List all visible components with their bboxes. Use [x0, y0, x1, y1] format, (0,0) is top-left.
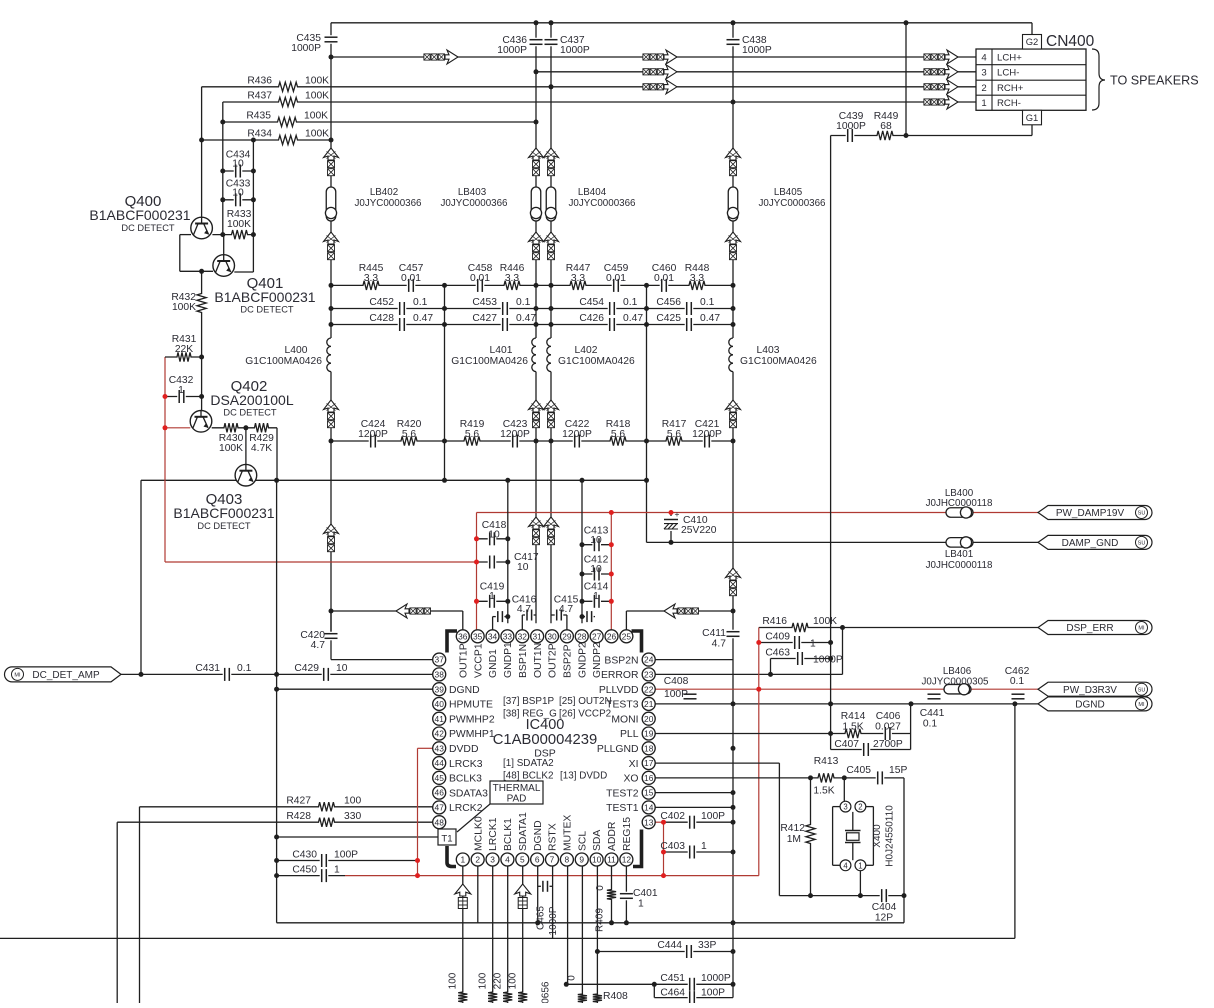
svg-text:SDATA3: SDATA3 — [449, 788, 488, 799]
svg-text:BSP2P: BSP2P — [562, 644, 573, 678]
svg-text:G1C100MA0426: G1C100MA0426 — [451, 356, 528, 367]
svg-text:0.1: 0.1 — [1010, 676, 1025, 687]
wire crystal box left — [832, 807, 834, 866]
capacitor C444 — [685, 945, 694, 958]
wire crystal element stubs — [852, 812, 854, 831]
wire OUT2N row to pin25 — [626, 610, 733, 612]
svg-text:C464: C464 — [660, 988, 685, 999]
wire Q402 junction down to Q403 — [245, 428, 247, 465]
svg-text:4.7K: 4.7K — [251, 443, 272, 454]
svg-text:0.47: 0.47 — [700, 313, 720, 324]
svg-text:C430: C430 — [292, 850, 317, 861]
wire R429 output down — [276, 428, 278, 481]
svg-text:100P: 100P — [664, 689, 688, 700]
svg-text:T1: T1 — [441, 834, 452, 845]
svg-text:L400: L400 — [285, 345, 308, 356]
inductor L401 — [527, 338, 537, 372]
svg-text:1000P: 1000P — [560, 45, 590, 56]
svg-text:36: 36 — [458, 631, 468, 641]
capacitor C409 — [793, 636, 802, 649]
IC400 chip outline corner top-left — [447, 631, 457, 653]
IC400 pin 39 — [433, 683, 446, 696]
wire Q401 to R432 vertical — [201, 271, 203, 410]
ferrite bead LB405 — [728, 187, 738, 221]
IC400 pin 41 — [433, 712, 446, 725]
svg-text:R437: R437 — [247, 91, 272, 102]
svg-text:0.01: 0.01 — [401, 273, 421, 284]
svg-text:1000P: 1000P — [813, 655, 843, 666]
resistor R436 — [275, 81, 302, 93]
svg-text:DSP_ERR: DSP_ERR — [1066, 623, 1113, 634]
capacitor C464 — [688, 991, 697, 1004]
IC400 pin 19 — [642, 727, 655, 740]
resistor pin4 220 — [502, 988, 514, 1006]
svg-text:LRCK2: LRCK2 — [449, 803, 483, 814]
inductor L402 — [542, 338, 552, 372]
shield symbol rail B lower — [529, 517, 544, 529]
IC400 pin 16 — [642, 771, 655, 784]
transistor Q401 — [213, 255, 235, 277]
capacitor C420 — [325, 632, 338, 641]
ferrite bead LB402 — [326, 187, 336, 221]
svg-text:0: 0 — [595, 885, 606, 891]
svg-text:100K: 100K — [305, 91, 329, 102]
IC400 T1 thermal pad pin — [438, 829, 456, 845]
svg-text:10: 10 — [590, 535, 602, 546]
svg-text:39: 39 — [435, 684, 445, 694]
svg-text:1: 1 — [858, 861, 862, 870]
brace TO SPEAKERS — [1092, 49, 1105, 110]
wire RCH- bus row to CN400 pin1 — [223, 101, 976, 103]
svg-text:0.47: 0.47 — [623, 313, 643, 324]
IC400 pin 12 — [620, 853, 633, 866]
capacitor C437 — [545, 38, 558, 47]
wire pin33 GNDP1 vertical — [507, 480, 509, 623]
wire T1 row — [277, 836, 438, 838]
svg-text:C428: C428 — [369, 313, 394, 324]
svg-text:C1AB00004239: C1AB00004239 — [493, 732, 598, 748]
svg-text:30: 30 — [547, 631, 557, 641]
svg-text:100K: 100K — [813, 616, 837, 627]
svg-text:1200P: 1200P — [500, 429, 530, 440]
svg-text:0.1: 0.1 — [923, 719, 938, 730]
crystal X400 pin 3 — [840, 801, 851, 812]
svg-text:0.01: 0.01 — [470, 273, 490, 284]
svg-text:100: 100 — [508, 972, 519, 989]
flag PW_DAMP19V — [1038, 506, 1152, 520]
IC400 pin 30 — [546, 630, 559, 643]
wire pin7 bottom — [552, 866, 554, 939]
bus arrow row4 right — [924, 54, 930, 60]
wire R412 vertical — [810, 778, 812, 896]
svg-text:DC DETECT: DC DETECT — [223, 408, 277, 418]
svg-text:C444: C444 — [657, 940, 682, 951]
svg-text:2700P: 2700P — [873, 739, 903, 750]
svg-text:1: 1 — [981, 98, 986, 109]
wire C464 row — [654, 997, 733, 999]
shield symbol rail B upper — [529, 148, 544, 160]
svg-text:100K: 100K — [227, 219, 251, 230]
wire pin3 bottom — [492, 866, 494, 1003]
capacitor C418 — [488, 532, 497, 545]
IC400 pin 5 — [516, 853, 529, 866]
svg-text:SU: SU — [1138, 511, 1146, 517]
IC400 pin 15 — [642, 786, 655, 799]
svg-text:L402: L402 — [575, 345, 598, 356]
transistor Q403 — [235, 464, 257, 486]
wire red DVDD to pin43 — [418, 747, 433, 749]
svg-text:7: 7 — [550, 855, 555, 865]
IC400 pin 7 — [546, 853, 559, 866]
wire DSP_ERR row — [759, 627, 1038, 629]
svg-text:MI: MI — [1138, 626, 1145, 632]
wire crystal pin1 stub — [859, 871, 861, 896]
bus arrow row1 right — [924, 99, 930, 105]
resistor R416 — [788, 622, 812, 634]
IC400 pin 46 — [433, 786, 446, 799]
svg-text:R409: R409 — [595, 908, 606, 932]
svg-text:OUT1P: OUT1P — [458, 643, 469, 678]
svg-text:35: 35 — [473, 631, 483, 641]
capacitor C453 — [501, 302, 510, 315]
svg-text:100K: 100K — [305, 129, 329, 140]
svg-text:11: 11 — [607, 855, 616, 865]
svg-text:PLL: PLL — [620, 729, 639, 740]
wire vertical at x906 — [905, 23, 907, 136]
resistor R434 — [275, 134, 302, 146]
IC400 pin 29 — [560, 630, 573, 643]
flag DSP_ERR — [1038, 621, 1152, 635]
resistor pin1 100 — [457, 988, 469, 1006]
svg-text:1: 1 — [489, 591, 495, 602]
wire rail A vertical — [330, 23, 332, 640]
capacitor C454 — [608, 302, 617, 315]
wire red VCCP2 vertical to pin26 — [610, 513, 612, 630]
wire TEST1 row pin14 — [655, 806, 733, 808]
svg-text:C425: C425 — [656, 313, 681, 324]
svg-text:3: 3 — [981, 68, 986, 79]
capacitor C402 — [688, 816, 697, 829]
wire DC_DET_AMP row to pin38 — [121, 673, 433, 675]
IC400 pin 11 — [605, 853, 618, 866]
svg-text:G1C100MA0426: G1C100MA0426 — [558, 356, 635, 367]
svg-text:MUTEX: MUTEX — [562, 815, 573, 851]
svg-text:PW_DAMP19V: PW_DAMP19V — [1056, 508, 1125, 519]
capacitor C425 — [685, 318, 694, 331]
wire red DVDD rail from Q402 area — [165, 561, 477, 563]
svg-text:1: 1 — [593, 591, 599, 602]
shield symbol rail D above row4 — [726, 400, 741, 412]
capacitor C431 — [223, 668, 232, 681]
svg-text:3.3: 3.3 — [364, 273, 379, 284]
shield symbol rail D below bead — [726, 232, 741, 244]
svg-text:10: 10 — [336, 663, 348, 674]
capacitor C456 — [685, 302, 694, 315]
IC400 pin 17 — [642, 757, 655, 770]
ferrite bead LB401 — [946, 538, 973, 548]
wire pin9 bottom — [581, 866, 583, 1003]
capacitor C410 electrolytic — [662, 516, 680, 531]
flag DGND — [1038, 697, 1152, 711]
svg-text:3: 3 — [490, 855, 495, 865]
svg-text:5: 5 — [520, 855, 525, 865]
wire x830 long vertical — [830, 136, 832, 734]
ferrite bead LB400 — [946, 508, 973, 518]
resistor R433 — [228, 229, 252, 241]
svg-text:C429: C429 — [294, 663, 319, 674]
wire long bus y922 — [277, 922, 904, 924]
svg-text:1000P: 1000P — [548, 906, 559, 935]
resistor R429 — [251, 422, 273, 434]
wire crystal pin3 stub — [843, 778, 845, 802]
svg-text:LB401: LB401 — [945, 549, 973, 560]
wire red vertical at C402 C403 — [663, 822, 665, 875]
bus arrow row4 mid — [643, 54, 649, 60]
svg-text:R414: R414 — [841, 711, 866, 722]
svg-text:C427: C427 — [472, 313, 497, 324]
capacitor C432 — [177, 390, 186, 403]
IC400 pin 22 — [642, 683, 655, 696]
shield symbol rail D upper — [726, 148, 741, 160]
svg-text:5.6: 5.6 — [465, 429, 480, 440]
resistor R432 — [196, 290, 208, 317]
IC400 pin 24 — [642, 653, 655, 666]
capacitor C419 — [488, 595, 497, 608]
resistor R431 — [173, 351, 195, 363]
IC400 pin 42 — [433, 727, 446, 740]
resistor pin3 100 — [487, 988, 499, 1006]
svg-text:OUT1N: OUT1N — [533, 643, 544, 678]
svg-text:R416: R416 — [762, 616, 787, 627]
capacitor C408 — [684, 692, 697, 701]
wire R431 row — [165, 356, 202, 358]
crystal X400 pin 2 — [855, 801, 866, 812]
connector CN400 G1 terminal — [1023, 110, 1042, 125]
svg-text:43: 43 — [435, 743, 445, 753]
wire C407 bracket — [830, 734, 832, 750]
wire Q402 base red stub — [165, 427, 190, 429]
shield symbol rail B above row4 — [529, 400, 544, 412]
svg-text:10: 10 — [232, 188, 244, 199]
svg-text:TEST3: TEST3 — [606, 700, 639, 711]
capacitor C438 — [727, 38, 740, 47]
capacitor C439 — [846, 129, 855, 142]
svg-text:R427: R427 — [286, 796, 311, 807]
shield symbol rail A lower — [324, 524, 339, 536]
resistor R413 — [814, 772, 838, 784]
svg-text:100K: 100K — [172, 302, 196, 313]
IC400 pin 47 — [433, 801, 446, 814]
svg-text:29: 29 — [562, 631, 572, 641]
resistor R427 — [315, 801, 339, 813]
svg-text:C463: C463 — [765, 648, 790, 659]
ferrite bead LB403 — [531, 187, 541, 221]
shield symbol rail B below bead — [529, 232, 544, 244]
capacitor C426 — [608, 318, 617, 331]
svg-text:0.1: 0.1 — [413, 297, 428, 308]
wire DAMP_GND row — [647, 541, 1039, 543]
svg-text:VCCP1: VCCP1 — [473, 643, 484, 678]
IC400 pin 20 — [642, 712, 655, 725]
svg-text:1200P: 1200P — [358, 429, 388, 440]
svg-text:PLLVDD: PLLVDD — [599, 685, 639, 696]
IC400 pin 13 — [642, 816, 655, 829]
svg-text:C405: C405 — [846, 765, 871, 776]
wire Q400 base vertical — [201, 87, 203, 217]
IC400 chip outline corner top-right — [632, 631, 642, 653]
IC400 pin 44 — [433, 757, 446, 770]
svg-text:ADDR: ADDR — [607, 821, 618, 851]
wire red PLLVDD row PW_D3R3V — [655, 688, 1038, 690]
svg-text:100P: 100P — [334, 850, 358, 861]
wire LCH+ bus row to CN400 pin4 — [331, 56, 976, 58]
svg-text:L403: L403 — [757, 345, 780, 356]
capacitor C422 — [573, 435, 582, 448]
svg-text:18: 18 — [644, 743, 654, 753]
svg-text:42: 42 — [435, 729, 445, 739]
wire pin28 GNDP2 vertical — [581, 480, 583, 623]
svg-text:10: 10 — [232, 159, 244, 170]
wire pin4 bottom — [507, 866, 509, 1003]
svg-text:SCL: SCL — [577, 831, 588, 851]
svg-text:1000P: 1000P — [291, 43, 321, 54]
svg-text:[1] SDATA2: [1] SDATA2 — [503, 758, 554, 769]
svg-text:1000P: 1000P — [742, 45, 772, 56]
svg-text:15P: 15P — [889, 765, 907, 776]
wire rail B vertical to pin31 — [535, 23, 537, 624]
svg-text:CN400: CN400 — [1046, 33, 1095, 50]
wire long bus y938 — [0, 937, 1015, 939]
wire TEST2 row pin15 — [655, 792, 733, 794]
svg-text:C404: C404 — [872, 902, 897, 913]
IC400 pin 48 — [433, 816, 446, 829]
svg-text:1000P: 1000P — [836, 121, 866, 132]
svg-text:C426: C426 — [579, 313, 604, 324]
svg-text:R435: R435 — [246, 111, 271, 122]
wire pin2 bottom — [477, 866, 479, 923]
svg-text:3.3: 3.3 — [571, 273, 586, 284]
wire XI row pin17 — [655, 762, 779, 764]
svg-text:20: 20 — [644, 714, 654, 724]
wire C463 row — [792, 658, 831, 660]
capacitor C404 — [880, 889, 889, 902]
wire Q400 cluster vertical x253 — [252, 140, 254, 272]
IC400 pin 32 — [516, 630, 529, 643]
IC400 pin 31 — [531, 630, 544, 643]
svg-text:16: 16 — [644, 773, 654, 783]
crystal X400 — [845, 830, 861, 832]
svg-text:DGND: DGND — [1075, 700, 1104, 711]
IC400 pin 18 — [642, 742, 655, 755]
IC400 pin 27 — [590, 630, 603, 643]
IC400 pin 10 — [590, 853, 603, 866]
svg-text:31: 31 — [532, 631, 542, 641]
IC400 pin 1 — [456, 853, 469, 866]
wire C413 row — [582, 544, 611, 546]
svg-text:RCH+: RCH+ — [997, 83, 1024, 94]
svg-text:40: 40 — [435, 699, 445, 709]
IC400 chip outline corner bottom-left — [447, 846, 456, 867]
svg-text:J0JYC0000305: J0JYC0000305 — [922, 677, 990, 688]
wire left junction vertical x276 — [276, 480, 278, 923]
wire Q400 cluster vertical x222 — [222, 102, 224, 235]
svg-text:1: 1 — [334, 865, 340, 876]
svg-text:12P: 12P — [875, 913, 893, 924]
svg-text:C454: C454 — [579, 297, 604, 308]
wire C414 row — [582, 600, 611, 602]
svg-text:17: 17 — [644, 758, 654, 768]
wire filter row3 — [331, 324, 733, 326]
svg-text:[37] BSP1P: [37] BSP1P — [503, 696, 554, 707]
wire C419 row — [477, 600, 508, 602]
capacitor C411 — [727, 630, 740, 639]
svg-text:0.1: 0.1 — [623, 297, 638, 308]
svg-text:R428: R428 — [286, 811, 311, 822]
svg-text:J0JYC0000366: J0JYC0000366 — [355, 198, 423, 209]
svg-text:DC DETECT: DC DETECT — [121, 223, 175, 233]
svg-text:100P: 100P — [701, 811, 725, 822]
svg-text:DAMP_GND: DAMP_GND — [1062, 538, 1119, 549]
svg-text:0.1: 0.1 — [700, 297, 715, 308]
svg-text:12: 12 — [622, 855, 632, 865]
IC400 pin 28 — [575, 630, 588, 643]
capacitor C452 — [398, 302, 407, 315]
wire filter row4 — [331, 440, 733, 442]
capacitor C414 — [592, 595, 601, 608]
svg-text:DSA200100L: DSA200100L — [210, 392, 294, 408]
svg-text:34: 34 — [488, 631, 498, 641]
wire pin24 BSP2N row — [655, 659, 733, 661]
svg-text:LB403: LB403 — [458, 187, 487, 198]
svg-text:1.5K: 1.5K — [813, 786, 834, 797]
wire pin11 bottom R409 — [611, 866, 613, 923]
ground symbol pin5 — [515, 884, 531, 896]
svg-text:C408: C408 — [664, 676, 689, 687]
svg-text:MI: MI — [1138, 702, 1145, 708]
transistor Q402 — [190, 411, 212, 433]
capacitor C435 — [325, 35, 338, 44]
svg-text:XO: XO — [623, 774, 638, 785]
capacitor C451 — [688, 978, 697, 991]
svg-text:LRCK1: LRCK1 — [488, 817, 499, 851]
bus arrow row3 right — [924, 69, 930, 75]
capacitor C450 — [320, 869, 329, 882]
svg-text:B1ABCF000231: B1ABCF000231 — [173, 505, 274, 521]
svg-text:32: 32 — [518, 631, 528, 641]
IC400 pin 25 — [620, 630, 633, 643]
svg-text:BSP1N: BSP1N — [518, 644, 529, 678]
svg-text:B1ABCF000231: B1ABCF000231 — [89, 207, 190, 223]
resistor R417 — [662, 435, 686, 447]
svg-text:DC DETECT: DC DETECT — [197, 521, 251, 531]
svg-text:33: 33 — [503, 631, 513, 641]
shield symbol rail C above row4 — [544, 400, 559, 412]
svg-text:[26] VCCP2: [26] VCCP2 — [559, 709, 611, 720]
svg-text:1: 1 — [178, 385, 184, 396]
wire pin12 bottom C401 — [625, 866, 627, 923]
svg-text:1M: 1M — [787, 834, 801, 845]
svg-text:46: 46 — [435, 788, 445, 798]
resistor pin5 100 — [517, 988, 529, 1006]
bus arrow OUT1P — [396, 604, 409, 618]
wire C420 branch — [330, 611, 332, 660]
svg-text:ERROR: ERROR — [601, 670, 639, 681]
svg-text:DC DETECT: DC DETECT — [240, 305, 294, 315]
IC400 pin 43 — [433, 742, 446, 755]
wire Q403 output row — [141, 479, 647, 481]
capacitor C405 — [876, 771, 885, 784]
svg-text:XI: XI — [629, 759, 639, 770]
